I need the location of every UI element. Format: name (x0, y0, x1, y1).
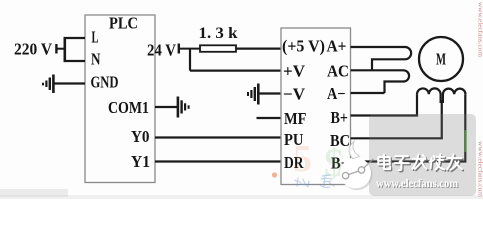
svg-text:(+5 V): (+5 V) (282, 37, 325, 56)
svg-text:N: N (91, 50, 101, 69)
bottom grey smudge (0, 195, 483, 199)
ground G2 (COM1) (178, 97, 189, 118)
svg-text:+V: +V (283, 62, 305, 81)
wire Y0 to PU (155, 136, 281, 138)
svg-text:L: L (92, 28, 99, 47)
winding LA1 hairpin (372, 47, 411, 70)
motor M1 (419, 37, 463, 81)
svg-text:220 V: 220 V (14, 40, 52, 59)
svg-text:5: 5 (293, 138, 312, 180)
svg-text:www.elecfans.com: www.elecfans.com (376, 176, 458, 190)
svg-text:PLC: PLC (109, 14, 138, 33)
svg-text:www.elecfans.com: www.elecfans.com (477, 2, 483, 58)
svg-text:B+: B+ (331, 108, 349, 127)
wire 220V stub (56, 48, 65, 50)
watermark logo tail (349, 142, 359, 159)
svg-text:www.elecfans.com: www.elecfans.com (477, 141, 483, 198)
winding LB group 2 (443, 89, 466, 103)
watermark logo disc shadow (342, 159, 373, 190)
wire to N (64, 60, 86, 62)
wire COM1 (155, 106, 177, 108)
watermark remnant orange dot (272, 172, 277, 177)
wire AC (351, 69, 404, 71)
svg-text:GND: GND (91, 73, 119, 92)
driver box U1 (281, 28, 351, 185)
svg-text:A+: A+ (327, 37, 347, 56)
winding LB group 1 (417, 88, 441, 103)
wire resistor to +5V (236, 47, 281, 49)
ground G1 (GND pin) (43, 75, 85, 94)
wire 220V bracket vertical (64, 37, 67, 62)
ground G3 (-V) (248, 84, 281, 105)
svg-text:1. 3 k: 1. 3 k (199, 25, 238, 42)
watermark title text (vector hanzi) (384, 156, 386, 167)
watermark grey box (369, 114, 476, 196)
wire BC center tap (351, 100, 442, 138)
winding LA2 hairpin (385, 70, 410, 93)
resistor R1 1.3k (200, 45, 236, 52)
wire 24V to resistor (179, 48, 200, 50)
wire green tint segment (464, 130, 467, 152)
watermark remnant blue scribbles (295, 178, 309, 187)
svg-text:Y0: Y0 (131, 127, 150, 146)
svg-text:−V: −V (283, 85, 305, 104)
PLC box (85, 15, 155, 183)
wire to +V (190, 69, 281, 71)
24V terminal tick (178, 44, 180, 54)
wire MF stub (257, 117, 282, 119)
watermark logo nodes (342, 172, 348, 178)
svg-text:M: M (436, 50, 446, 69)
svg-text:Y1: Y1 (131, 152, 150, 171)
wire A+ (351, 46, 406, 48)
220V terminal tick (55, 44, 57, 54)
wire A- (351, 92, 385, 94)
svg-text:A−: A− (327, 84, 346, 103)
wire Y1 to DR (155, 160, 281, 162)
svg-text:COM1: COM1 (108, 98, 149, 117)
watermark logo disc (340, 158, 371, 189)
wire B- (351, 94, 466, 161)
svg-text:MF: MF (284, 109, 307, 128)
svg-text:24 V: 24 V (147, 41, 176, 60)
svg-text:AC: AC (327, 62, 349, 81)
wire B+ (351, 94, 418, 115)
node junction 24V branch (189, 49, 191, 71)
wire to L (64, 37, 86, 39)
